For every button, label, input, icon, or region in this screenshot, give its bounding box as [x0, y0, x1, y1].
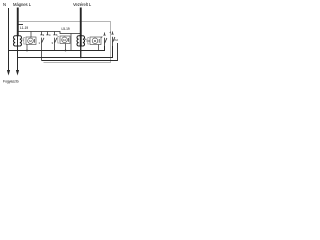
svg-text:Vezérelt L: Vezérelt L: [73, 2, 92, 7]
svg-text:K2: K2: [115, 38, 119, 42]
svg-text:Fogyasztó: Fogyasztó: [3, 79, 19, 83]
svg-text:K2: K2: [63, 38, 67, 42]
svg-text:Mágnes L: Mágnes L: [13, 2, 32, 7]
svg-text:N: N: [3, 2, 6, 7]
svg-text:L5-19: L5-19: [62, 27, 70, 31]
svg-text:L1-19: L1-19: [20, 26, 28, 30]
